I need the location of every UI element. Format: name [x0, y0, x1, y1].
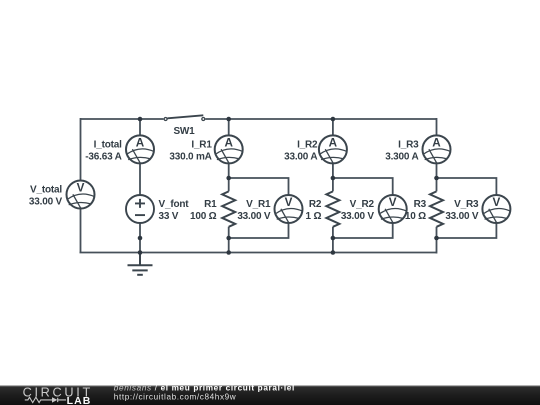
- wire branch A top: [139, 119, 141, 136]
- svg-text:R3: R3: [414, 199, 427, 210]
- wire branch B resistor leads: [228, 178, 230, 253]
- svg-text:V_R3: V_R3: [454, 199, 479, 210]
- wire branch D resistor leads: [436, 178, 438, 254]
- ammeter I_total: [126, 135, 154, 163]
- svg-text:I_total: I_total: [94, 140, 122, 151]
- source V_font: [126, 195, 154, 223]
- wire branch C resistor leads: [332, 178, 334, 253]
- node R2 top: [331, 176, 336, 181]
- wire V_R2 loop: [333, 178, 393, 238]
- wire top left segment: [81, 118, 164, 120]
- switch SW1: [164, 115, 205, 120]
- svg-text:I_R2: I_R2: [297, 140, 318, 151]
- node top C: [331, 117, 336, 122]
- ground: [128, 253, 153, 275]
- svg-text:33.00 V: 33.00 V: [341, 211, 375, 222]
- node V_font bottom: [138, 236, 143, 241]
- voltmeter V_total: [67, 181, 95, 209]
- wire branch D top: [436, 118, 438, 136]
- svg-text:I_R1: I_R1: [191, 140, 212, 151]
- junction dots: [138, 117, 439, 255]
- svg-text:A: A: [432, 136, 441, 149]
- svg-text:33.00 V: 33.00 V: [29, 197, 63, 208]
- resistor R3: [430, 191, 443, 226]
- wire V_R1 loop: [229, 178, 289, 238]
- svg-text:33.00 V: 33.00 V: [237, 211, 271, 222]
- logo zigzag diode: [25, 397, 66, 402]
- svg-text:A: A: [224, 136, 233, 149]
- node R3 top: [434, 176, 439, 181]
- svg-text:benisans / el meu primer circu: benisans / el meu primer circuit paral·l…: [114, 383, 295, 392]
- ammeter I_R3: [423, 135, 451, 163]
- svg-text:I_R3: I_R3: [398, 140, 419, 151]
- svg-text:A: A: [136, 136, 145, 149]
- svg-text:33 V: 33 V: [159, 211, 179, 222]
- svg-text:A: A: [329, 136, 338, 149]
- svg-text:V_R2: V_R2: [350, 199, 375, 210]
- ammeter I_R2: [319, 135, 347, 163]
- wire left vertical upper: [80, 118, 82, 181]
- svg-text:33.00 A: 33.00 A: [284, 152, 317, 163]
- node bottom B: [226, 250, 231, 255]
- voltmeter V_R2: [379, 195, 407, 223]
- svg-text:V_font: V_font: [159, 199, 190, 210]
- svg-text:SW1: SW1: [173, 126, 195, 137]
- wire V_R3 loop: [437, 178, 497, 238]
- wire branch D mid: [436, 163, 438, 178]
- resistor R2: [326, 191, 339, 226]
- node ground: [138, 250, 143, 255]
- svg-text:V: V: [389, 196, 397, 209]
- ammeter I_R1: [215, 135, 243, 163]
- svg-text:V_R1: V_R1: [246, 199, 271, 210]
- svg-text:33.00 V: 33.00 V: [445, 211, 479, 222]
- node R1 bottom: [226, 236, 231, 241]
- footer bar: [0, 385, 540, 405]
- svg-text:3.300 A: 3.300 A: [385, 152, 418, 163]
- svg-text:http://circuitlab.com/c84hx9w: http://circuitlab.com/c84hx9w: [114, 392, 237, 401]
- svg-text:100 Ω: 100 Ω: [190, 211, 217, 222]
- wire bottom rail: [80, 252, 437, 254]
- node top A: [138, 117, 143, 122]
- wire top right segment: [205, 118, 436, 120]
- svg-text:V: V: [77, 181, 85, 194]
- wire branch C top: [332, 119, 334, 136]
- wire branch A bottom: [139, 223, 141, 253]
- node bottom C: [331, 250, 336, 255]
- svg-text:10 Ω: 10 Ω: [405, 211, 426, 222]
- node top B: [226, 117, 231, 122]
- svg-text:LAB: LAB: [67, 395, 92, 405]
- wire branch C mid: [332, 163, 334, 178]
- svg-text:-36.63 A: -36.63 A: [85, 152, 121, 163]
- svg-text:R1: R1: [204, 199, 217, 210]
- svg-text:1 Ω: 1 Ω: [306, 211, 322, 222]
- wire branch A mid: [139, 163, 141, 195]
- svg-text:330.0 mA: 330.0 mA: [169, 152, 211, 163]
- voltmeter V_R1: [275, 195, 303, 223]
- wire branch B mid: [228, 163, 230, 178]
- node R2 bottom: [331, 236, 336, 241]
- svg-text:R2: R2: [309, 199, 322, 210]
- svg-text:V: V: [493, 196, 501, 209]
- wire branch B top: [228, 119, 230, 136]
- node R1 top: [226, 176, 231, 181]
- resistor R1: [222, 191, 235, 226]
- svg-text:V: V: [285, 196, 293, 209]
- voltmeter V_R3: [482, 195, 510, 223]
- wire left vertical lower: [80, 208, 82, 252]
- svg-text:V_total: V_total: [30, 185, 62, 196]
- node R3 bottom: [434, 236, 439, 241]
